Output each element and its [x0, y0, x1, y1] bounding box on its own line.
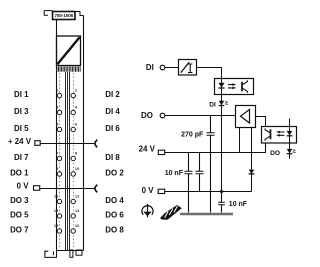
svg-text:24 V: 24 V: [139, 144, 156, 153]
svg-text:DI 6: DI 6: [105, 124, 120, 133]
svg-text:+ 24 V: + 24 V: [8, 137, 32, 146]
module row labels: [8, 90, 124, 235]
capacitor C3 10nF (24V to 0V): [196, 153, 204, 192]
0 V jumper hook: [95, 185, 97, 192]
24V rail: [165, 143, 266, 153]
svg-text:DO 3: DO 3: [10, 196, 29, 205]
DO opto phototransistor: [270, 129, 272, 139]
marking square diagonal: [57, 37, 79, 64]
wire DO terminal to driver: [165, 115, 236, 117]
DI input terminal: [160, 65, 165, 70]
svg-text:270 pF: 270 pF: [181, 132, 204, 139]
0V field plug: [158, 189, 165, 193]
+24 V jumper hook: [95, 140, 97, 147]
terminal circles + pin numbers (generated): [54, 87, 80, 233]
svg-text:DO 6: DO 6: [105, 211, 124, 220]
svg-text:1: 1: [56, 87, 59, 92]
DO opto light arrows: [279, 132, 284, 135]
bus contact rails: [66, 72, 70, 250]
+24 V plug: [35, 141, 40, 146]
svg-text:DI 3: DI 3: [14, 107, 29, 116]
terminal contact pin 4: [71, 110, 75, 114]
svg-text:3: 3: [56, 104, 59, 109]
svg-text:DI 7: DI 7: [14, 153, 29, 162]
svg-text:DO 4: DO 4: [105, 196, 124, 205]
0V rail: [165, 191, 252, 193]
driver supply wire to 24V rail: [239, 128, 241, 153]
terminal contact pin 16: [71, 229, 75, 233]
0 V plug: [34, 186, 40, 191]
wire driver to DO optocoupler: [256, 117, 266, 127]
terminal contact pin 3: [57, 110, 61, 114]
DI status LED: [219, 95, 228, 192]
terminal contact pin 5: [57, 127, 61, 131]
svg-text:DO 8: DO 8: [105, 226, 124, 235]
filter symbol: [181, 62, 189, 72]
connector hatch strip: [57, 67, 80, 72]
24V field plug: [158, 150, 164, 154]
svg-text:DI 8: DI 8: [105, 153, 120, 162]
svg-text:6: 6: [75, 121, 78, 126]
filter box U1: [179, 60, 197, 76]
terminal contact pin 13: [57, 214, 61, 218]
capacitor C2 10nF (24V to FE): [185, 153, 193, 213]
+24 V wire across module: [40, 143, 94, 145]
shield / rail contact flag: [160, 205, 182, 220]
terminal contact pin 7: [57, 156, 61, 160]
svg-text:DI 1: DI 1: [14, 90, 29, 99]
output driver A1 box: [236, 106, 256, 128]
bottom tab 1: [70, 250, 73, 257]
svg-text:0 V: 0 V: [142, 186, 155, 195]
svg-text:2: 2: [75, 87, 78, 92]
svg-text:11: 11: [54, 193, 59, 198]
svg-text:7: 7: [56, 150, 59, 155]
svg-text:4: 4: [75, 104, 78, 109]
svg-text:9: 9: [56, 166, 59, 171]
svg-text:5: 5: [56, 121, 59, 126]
terminal contact pin 2: [71, 93, 75, 97]
svg-text:DI 2: DI 2: [105, 90, 120, 99]
terminal contact pin 1: [57, 93, 61, 97]
DIN rail foot left: [45, 251, 57, 258]
bottom tab 2: [76, 250, 82, 255]
0 V wire across module: [40, 188, 94, 190]
wire filter to optocoupler: [197, 68, 222, 79]
earth bus bar: [180, 213, 233, 216]
svg-text:750-1506: 750-1506: [54, 13, 73, 18]
svg-text:12: 12: [75, 193, 80, 198]
terminal contact pin 8: [71, 156, 75, 160]
module top-right step: [75, 12, 84, 16]
DO status LED: [287, 143, 296, 159]
marking square: [57, 36, 81, 66]
svg-text:16: 16: [75, 223, 80, 228]
svg-text:13: 13: [54, 208, 59, 213]
svg-text:DI: DI: [146, 63, 154, 72]
svg-text:DI 5: DI 5: [14, 124, 29, 133]
optocoupler phototransistor: [241, 82, 243, 92]
label plate 750-1506: [53, 12, 76, 20]
optocoupler LED: [221, 79, 223, 95]
svg-text:DO: DO: [270, 150, 280, 157]
terminal contact pin 9: [57, 172, 61, 176]
DO opto LED: [289, 119, 291, 144]
terminal stem dashed columns: [60, 73, 74, 248]
optocoupler U2 box: [215, 79, 254, 95]
svg-text:DO 5: DO 5: [10, 211, 29, 220]
svg-text:0 V: 0 V: [17, 182, 30, 191]
optocoupler light arrows: [228, 85, 233, 88]
svg-text:10 nF: 10 nF: [229, 201, 248, 208]
svg-text:DI 4: DI 4: [105, 107, 120, 116]
terminal contact pin 6: [71, 127, 75, 131]
capacitor C4 10nF (0V to FE): [218, 192, 225, 213]
svg-text:DO 7: DO 7: [10, 226, 29, 235]
DO optocoupler U3 box: [262, 127, 297, 144]
capacitor C1 270pF line: [207, 116, 215, 213]
module top-left tab: [44, 11, 52, 16]
terminal contact pin 12: [71, 199, 75, 203]
module bottom edge: [56, 250, 84, 252]
svg-text:15: 15: [54, 223, 59, 228]
svg-text:10: 10: [75, 166, 80, 171]
driver to diode wire: [251, 128, 253, 192]
module body outline: [57, 16, 84, 251]
svg-text:10 nF: 10 nF: [165, 170, 184, 177]
svg-text:DO: DO: [141, 111, 153, 120]
svg-text:DO 1: DO 1: [10, 169, 29, 178]
svg-text:8: 8: [75, 150, 78, 155]
wire DI terminal to filter: [165, 67, 178, 69]
driver triangle: [241, 110, 250, 124]
functional earth symbol: [142, 204, 153, 218]
terminal contact pin 11: [57, 199, 61, 203]
terminal contact pin 10: [71, 172, 75, 176]
svg-text:14: 14: [75, 208, 80, 213]
svg-text:DI: DI: [209, 102, 216, 109]
node junction on 0V rail: [220, 190, 223, 193]
DO output terminal: [160, 113, 165, 118]
terminal contact pin 14: [71, 214, 75, 218]
terminal contact pin 15: [57, 229, 61, 233]
diode D1: [249, 170, 255, 174]
svg-text:DO 2: DO 2: [105, 169, 124, 178]
